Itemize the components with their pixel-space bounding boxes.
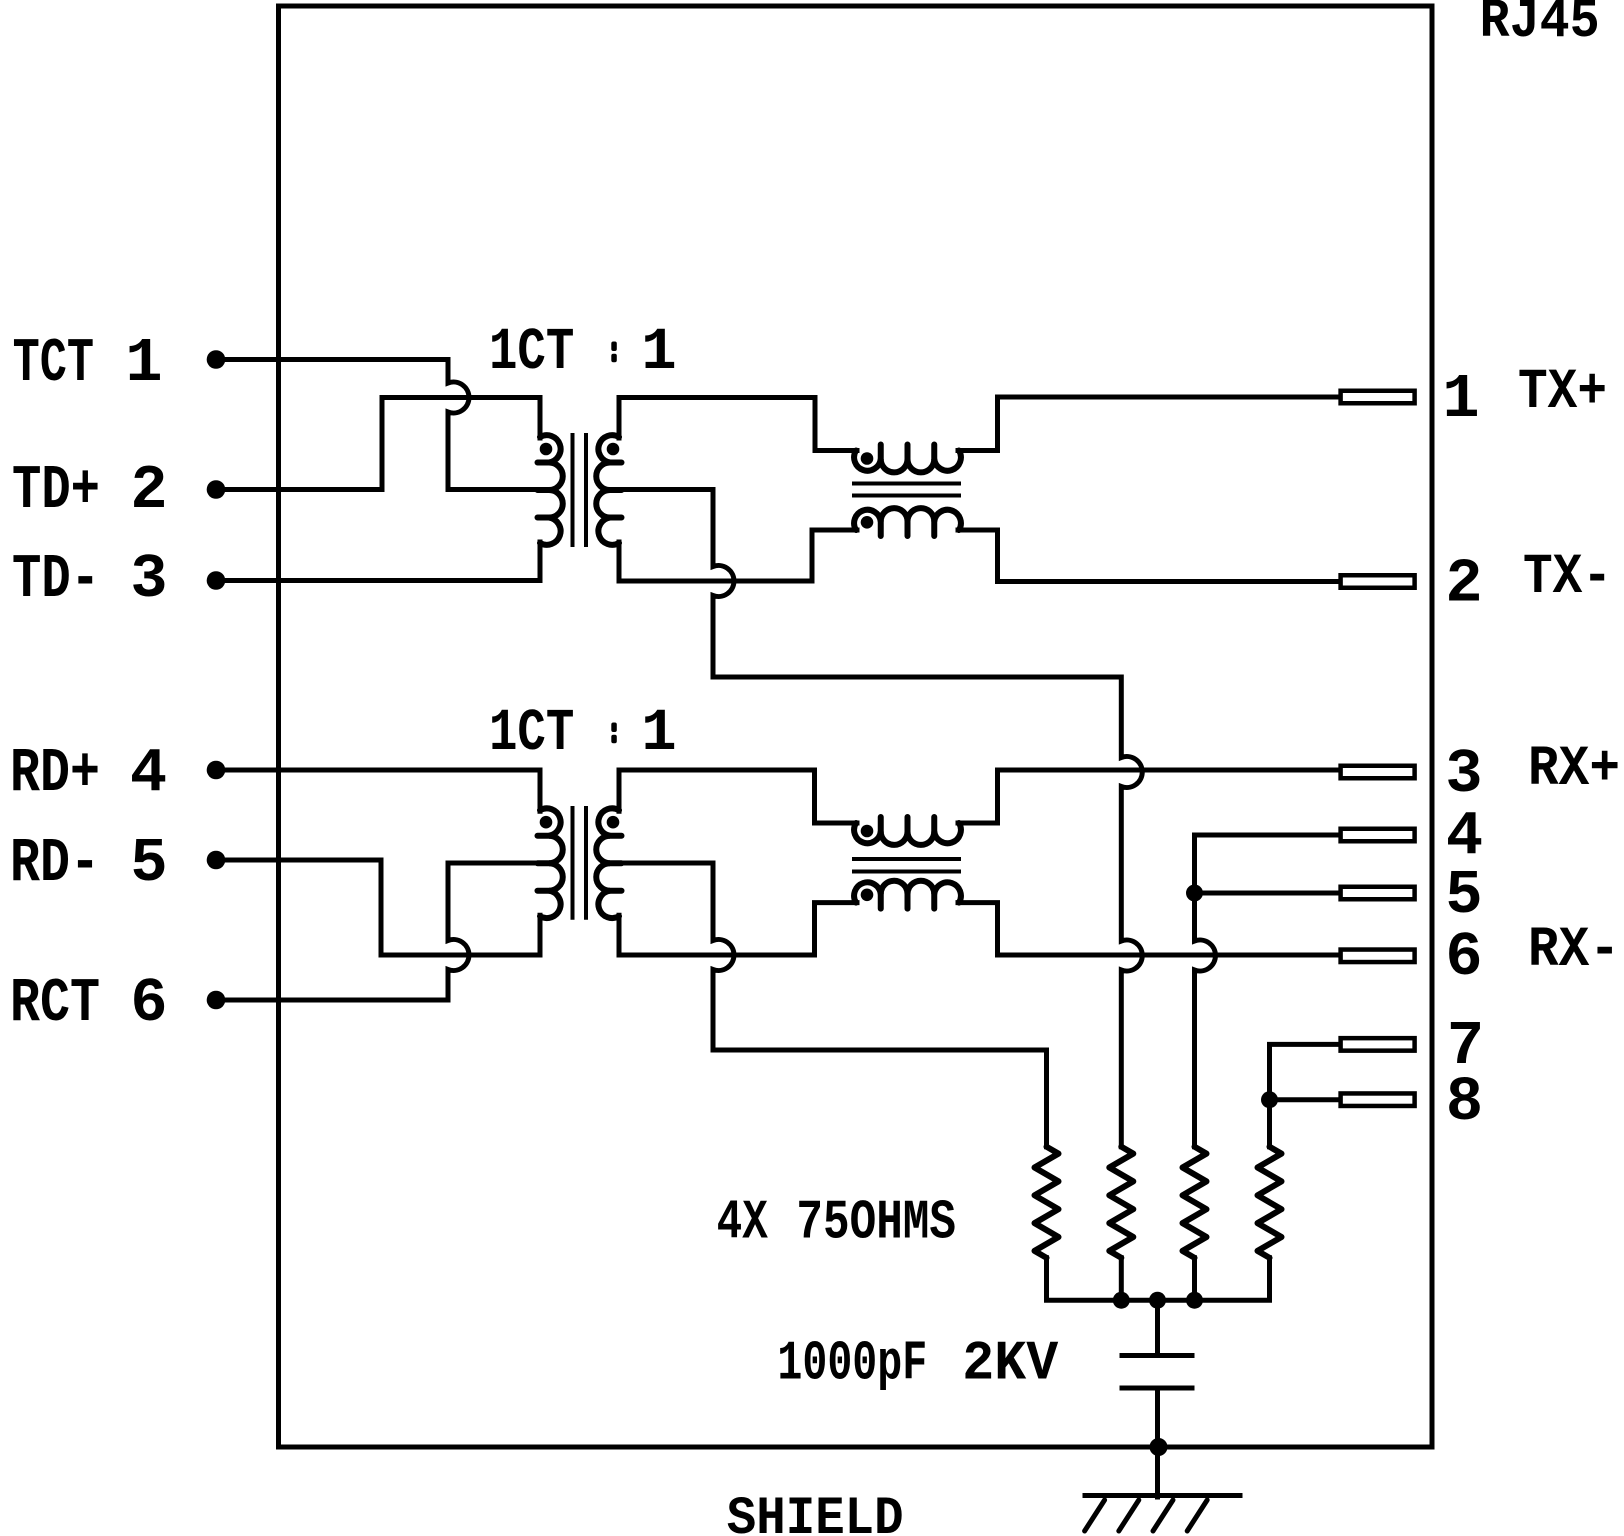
svg-text:RX-: RX- bbox=[1528, 919, 1620, 983]
svg-text:TCT: TCT bbox=[13, 328, 94, 399]
svg-text:4X: 4X bbox=[717, 1191, 768, 1255]
svg-text:TD-: TD- bbox=[12, 544, 100, 615]
svg-text:1: 1 bbox=[641, 700, 676, 767]
svg-text:TX+: TX+ bbox=[1518, 361, 1607, 425]
svg-text:RD+: RD+ bbox=[10, 738, 100, 809]
svg-text:1: 1 bbox=[125, 328, 162, 399]
svg-text:5: 5 bbox=[1445, 860, 1482, 931]
svg-text:RCT: RCT bbox=[10, 968, 100, 1039]
svg-text:SHIELD: SHIELD bbox=[727, 1489, 904, 1536]
svg-text:1CT: 1CT bbox=[489, 319, 574, 386]
svg-text:1: 1 bbox=[1442, 364, 1479, 435]
svg-text:2KV: 2KV bbox=[962, 1332, 1058, 1396]
svg-text:RX+: RX+ bbox=[1528, 738, 1620, 802]
svg-text:4: 4 bbox=[130, 738, 167, 809]
svg-text:75OHMS: 75OHMS bbox=[796, 1191, 956, 1255]
svg-text:TD+: TD+ bbox=[12, 455, 100, 526]
svg-text:6: 6 bbox=[130, 968, 167, 1039]
svg-text:TX-: TX- bbox=[1523, 546, 1612, 610]
svg-text:1CT: 1CT bbox=[489, 700, 574, 767]
svg-text:2: 2 bbox=[130, 455, 167, 526]
svg-text:5: 5 bbox=[130, 828, 167, 899]
svg-text:1: 1 bbox=[641, 319, 676, 386]
svg-text:3: 3 bbox=[130, 544, 167, 615]
svg-text:1000pF: 1000pF bbox=[777, 1332, 927, 1396]
svg-text:3: 3 bbox=[1445, 739, 1482, 810]
svg-text:RD-: RD- bbox=[10, 828, 100, 899]
svg-text:8: 8 bbox=[1446, 1067, 1483, 1138]
svg-text:6: 6 bbox=[1445, 922, 1482, 993]
svg-text:2: 2 bbox=[1445, 549, 1482, 620]
svg-text:RJ45: RJ45 bbox=[1480, 0, 1600, 53]
